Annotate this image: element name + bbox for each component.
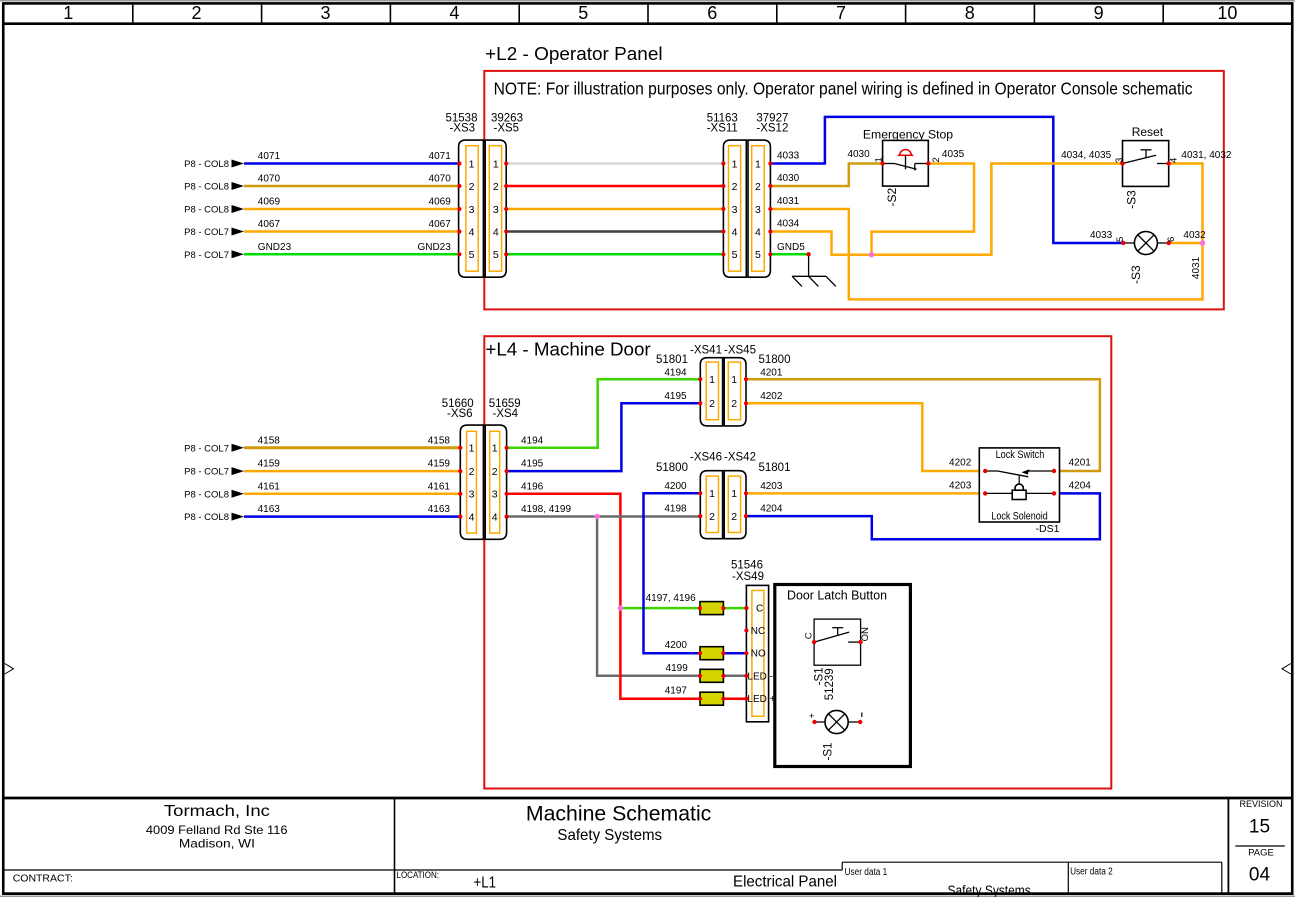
wire P8-COL8 4163 (blue) — [244, 504, 460, 517]
svg-text:+L4 - Machine Door: +L4 - Machine Door — [485, 338, 650, 359]
svg-text:4198, 4199: 4198, 4199 — [521, 504, 571, 515]
svg-text:3: 3 — [492, 489, 498, 501]
sheet bottom border redraw — [2, 892, 1293, 895]
svg-text:+L2 - Operator Panel: +L2 - Operator Panel — [485, 43, 662, 64]
door latch button box S1 — [775, 585, 911, 767]
junction node 4034/4035 (pink) — [869, 252, 874, 257]
structure box +L4 — [484, 336, 1111, 788]
svg-text:4070: 4070 — [258, 174, 281, 185]
svg-text:-XS41: -XS41 — [690, 344, 722, 356]
TITLE BLOCK — [2, 798, 1293, 893]
svg-text:4197: 4197 — [665, 686, 688, 697]
svg-text:Emergency Stop: Emergency Stop — [863, 128, 954, 142]
indicator lamp S3 — [1121, 232, 1171, 255]
svg-text:P8 - COL7: P8 - COL7 — [184, 227, 229, 238]
svg-text:GND23: GND23 — [417, 242, 451, 253]
svg-text:51800: 51800 — [759, 354, 791, 366]
ferrule on wire 4197 (LED+) — [698, 692, 726, 705]
svg-text:4: 4 — [469, 511, 475, 523]
connector XS3 (51538) — [446, 113, 484, 278]
svg-text:4198: 4198 — [664, 504, 687, 515]
svg-text:3: 3 — [469, 489, 475, 501]
svg-text:+L1: +L1 — [474, 875, 497, 892]
svg-text:LED -: LED - — [747, 671, 773, 682]
wire P8-COL7 4158 (goldenrod) — [244, 435, 460, 448]
svg-text:P8 - COL8: P8 - COL8 — [184, 512, 229, 523]
svg-text:4194: 4194 — [521, 435, 544, 446]
svg-text:4069: 4069 — [429, 197, 452, 208]
wire 4033 (blue) XS12.1 to lamp S3 pin5 — [770, 117, 1123, 243]
svg-text:5: 5 — [732, 249, 738, 261]
emergency stop switch S2 — [863, 128, 954, 187]
svg-text:1: 1 — [493, 158, 499, 170]
svg-text:10: 10 — [1217, 3, 1237, 23]
svg-text:PAGE: PAGE — [1248, 848, 1274, 859]
svg-text:4161: 4161 — [428, 481, 451, 492]
wire 4200 (blue) XS46.1 down to pin NO — [644, 493, 747, 653]
reset switch S3 — [1120, 125, 1171, 186]
svg-text:4030: 4030 — [777, 173, 800, 184]
wire 4199 (gray) junction down to LED- ferrule — [597, 517, 746, 676]
svg-text:9: 9 — [1094, 3, 1104, 23]
svg-text:3: 3 — [732, 204, 738, 216]
source arrow P8 - COL7 (row2) — [184, 467, 244, 478]
svg-text:1: 1 — [731, 488, 737, 500]
svg-text:5: 5 — [469, 249, 475, 261]
svg-text:4071: 4071 — [429, 151, 452, 162]
svg-text:4070: 4070 — [429, 174, 452, 185]
svg-text:2: 2 — [731, 511, 737, 523]
svg-text:-S1: -S1 — [823, 743, 835, 761]
svg-text:4158: 4158 — [428, 435, 451, 446]
source arrow P8 - COL8 (row1) — [184, 159, 244, 170]
lock switch / lock solenoid DS1 — [979, 448, 1059, 523]
svg-text:6: 6 — [1166, 237, 1177, 242]
svg-text:51546: 51546 — [731, 560, 763, 572]
svg-text:User data 1: User data 1 — [845, 867, 888, 878]
svg-text:-XS6: -XS6 — [447, 408, 473, 420]
svg-text:-S2: -S2 — [885, 188, 899, 207]
svg-text:4031: 4031 — [777, 196, 800, 207]
svg-text:4033: 4033 — [777, 151, 800, 162]
svg-text:-XS4: -XS4 — [493, 408, 519, 420]
svg-text:2: 2 — [731, 398, 737, 410]
svg-text:Safety Systems: Safety Systems — [557, 827, 662, 844]
svg-text:1: 1 — [63, 3, 73, 23]
svg-text:3: 3 — [755, 204, 761, 216]
svg-text:P8 - COL8: P8 - COL8 — [184, 182, 229, 193]
svg-text:3: 3 — [320, 3, 330, 23]
wire 4202 (orange) XS45.2 to lock switch — [746, 391, 985, 471]
fold mark left — [5, 664, 14, 675]
wire GND5 (green) XS12.5 to ground — [770, 242, 808, 255]
svg-text:4071: 4071 — [258, 151, 281, 162]
svg-text:CONTRACT:: CONTRACT: — [13, 873, 73, 885]
svg-text:4202: 4202 — [760, 391, 783, 402]
svg-text:4163: 4163 — [258, 504, 281, 515]
wire XS5.1 to XS11.1 (light gray) — [506, 162, 723, 165]
svg-text:4203: 4203 — [949, 480, 972, 491]
svg-text:-XS45: -XS45 — [724, 344, 756, 356]
wire XS5.4 to XS11.4 (dark gray) — [506, 230, 723, 233]
svg-text:4032: 4032 — [1183, 230, 1206, 241]
svg-text:2: 2 — [492, 466, 498, 478]
svg-text:4: 4 — [469, 226, 475, 238]
wire 4203 (orange) XS42.1 to lock switch — [746, 481, 985, 494]
svg-text:4199: 4199 — [666, 663, 689, 674]
svg-text:NOTE: For illustration purpose: NOTE: For illustration purposes only. Op… — [494, 79, 1193, 99]
svg-text:3: 3 — [493, 204, 499, 216]
svg-text:C: C — [804, 632, 815, 639]
junction node 4031/4032 (pink) — [1200, 240, 1205, 245]
ferrule on wire 4199 (LED-) — [698, 669, 726, 682]
svg-text:Madison, WI: Madison, WI — [179, 836, 255, 850]
svg-text:Lock Switch: Lock Switch — [996, 449, 1045, 461]
door latch lamp S1 — [812, 710, 862, 733]
svg-text:4195: 4195 — [521, 459, 544, 470]
svg-text:04: 04 — [1249, 865, 1271, 886]
svg-text:-XS3: -XS3 — [450, 123, 476, 135]
svg-text:2: 2 — [709, 398, 715, 410]
svg-text:4031, 4032: 4031, 4032 — [1181, 150, 1231, 161]
svg-text:C: C — [756, 604, 763, 615]
wire 4034 (orange) XS12.4 to junction to Reset pin3 — [770, 150, 1122, 255]
junction node 4198/4199 (pink) — [594, 514, 599, 519]
svg-text:2: 2 — [931, 157, 942, 162]
node GND5 terminal dot — [806, 252, 810, 256]
source arrow P8 - COL8 (row3) — [184, 205, 244, 216]
svg-text:User data 2: User data 2 — [1070, 866, 1113, 877]
wire P8-COL7 4067 (orange) — [244, 219, 459, 232]
svg-text:Door Latch Button: Door Latch Button — [787, 588, 887, 602]
svg-text:+: + — [809, 711, 815, 722]
pin label - (door lamp) — [861, 713, 863, 718]
fold mark right — [1282, 664, 1291, 675]
svg-text:4: 4 — [732, 226, 738, 238]
svg-text:LED +: LED + — [747, 694, 775, 705]
svg-text:4: 4 — [493, 226, 499, 238]
svg-text:REVISION: REVISION — [1239, 799, 1282, 809]
svg-text:4201: 4201 — [760, 368, 783, 379]
source arrow P8 - COL7 (row4) — [184, 227, 244, 238]
source arrow P8 - COL7 (row1) — [184, 443, 244, 454]
svg-text:4161: 4161 — [258, 481, 281, 492]
wire 4031 (orange) XS12.3 to Reset pin4 — [770, 164, 1202, 300]
svg-text:4067: 4067 — [429, 219, 452, 230]
svg-text:5: 5 — [493, 249, 499, 261]
svg-text:Reset: Reset — [1132, 125, 1164, 139]
RULER-NUMBERS — [63, 3, 1237, 23]
wire 4197, 4196 (green) junction to pin C — [620, 593, 746, 608]
connector XS45 (51800) — [724, 344, 790, 426]
svg-text:3: 3 — [469, 204, 475, 216]
svg-text:4201: 4201 — [1069, 458, 1092, 469]
svg-text:1: 1 — [709, 488, 715, 500]
wire P8-COL8 4161 (orange) — [244, 481, 460, 494]
svg-text:2: 2 — [732, 181, 738, 193]
svg-text:2: 2 — [709, 511, 715, 523]
svg-text:4200: 4200 — [664, 481, 687, 492]
svg-text:6: 6 — [707, 3, 717, 23]
svg-text:-XS5: -XS5 — [494, 123, 520, 135]
svg-text:2: 2 — [469, 466, 475, 478]
wire P8-COL8 4069 (orange) — [244, 197, 459, 210]
svg-text:4203: 4203 — [760, 481, 783, 492]
svg-text:4067: 4067 — [258, 219, 281, 230]
junction node 4196/4197 (pink) — [618, 605, 623, 610]
wire P8-COL8 4070 (goldenrod) — [244, 174, 459, 187]
svg-text:Machine Schematic: Machine Schematic — [526, 803, 711, 826]
svg-text:NO: NO — [858, 627, 869, 641]
svg-text:4009 Felland Rd Ste 116: 4009 Felland Rd Ste 116 — [146, 823, 288, 837]
connector XS12 (37927) — [748, 113, 788, 278]
svg-text:4200: 4200 — [665, 640, 688, 651]
svg-text:4069: 4069 — [258, 197, 281, 208]
svg-text:1: 1 — [469, 443, 475, 455]
svg-text:1: 1 — [755, 158, 761, 170]
wire 4198, 4199 (gray) XS4.4 to XS46.2 — [507, 504, 701, 516]
svg-text:1: 1 — [492, 443, 498, 455]
svg-text:7: 7 — [836, 3, 846, 23]
wire XS5.5 to XS11.5 (green) — [506, 253, 723, 256]
svg-text:GND5: GND5 — [777, 242, 805, 253]
svg-text:4204: 4204 — [1069, 480, 1092, 491]
svg-text:1: 1 — [709, 374, 715, 386]
svg-text:4: 4 — [1168, 158, 1179, 163]
wire P8-COL7 4159 (orange) — [244, 459, 460, 472]
connector XS49 (51546) — [731, 560, 776, 722]
svg-text:1: 1 — [469, 158, 475, 170]
svg-text:51801: 51801 — [759, 462, 791, 474]
svg-text:GND23: GND23 — [258, 242, 292, 253]
svg-text:P8 - COL8: P8 - COL8 — [184, 159, 229, 170]
svg-text:NC: NC — [751, 626, 765, 637]
svg-text:4158: 4158 — [258, 435, 281, 446]
connector XS11 (51163) — [707, 113, 747, 278]
svg-text:4035: 4035 — [942, 149, 965, 160]
svg-text:2: 2 — [469, 181, 475, 193]
svg-text:P8 - COL8: P8 - COL8 — [184, 489, 229, 500]
wire 4196 (red) XS4.3 down to junction — [507, 481, 621, 608]
svg-text:-XS42: -XS42 — [724, 452, 756, 464]
ferrule on wire 4197,4196 (C) — [698, 602, 726, 615]
svg-text:15: 15 — [1249, 817, 1270, 838]
source arrow P8 - COL8 (row2) — [184, 182, 244, 193]
svg-text:2: 2 — [755, 181, 761, 193]
wire GND23 (green) — [244, 242, 459, 255]
svg-text:4034: 4034 — [777, 219, 800, 230]
wire 4201 (goldenrod) lock switch to XS45.1 — [746, 368, 1100, 471]
svg-text:51239: 51239 — [824, 668, 836, 700]
svg-text:4031: 4031 — [1191, 256, 1202, 279]
svg-text:2: 2 — [493, 181, 499, 193]
door latch switch S1 contact — [812, 619, 863, 665]
svg-text:4033: 4033 — [1090, 230, 1113, 241]
connector XS46 (51800) — [656, 452, 723, 539]
svg-text:P8 - COL7: P8 - COL7 — [184, 250, 229, 261]
svg-text:NO: NO — [751, 649, 766, 660]
connector XS5 (39263) — [485, 113, 523, 278]
revision divider — [1235, 845, 1285, 847]
svg-text:5: 5 — [1115, 237, 1126, 242]
wire 4195 (blue) XS4.2 to XS41.2 — [507, 403, 701, 471]
svg-text:-DS1: -DS1 — [1036, 523, 1060, 535]
wire 4035 (orange) E-stop pin2 to junction — [872, 149, 975, 255]
svg-text:-XS12: -XS12 — [756, 123, 788, 135]
source arrow P8 - COL8 (row3) — [184, 489, 244, 500]
svg-text:4194: 4194 — [664, 368, 687, 379]
svg-text:3: 3 — [1114, 158, 1125, 163]
svg-text:2: 2 — [191, 3, 201, 23]
wire 4030 (goldenrod) XS12.2 to E-stop pin1 — [770, 149, 882, 186]
wire P8-COL8 4071 (blue) — [244, 151, 459, 164]
svg-text:P8 - COL7: P8 - COL7 — [184, 467, 229, 478]
svg-text:Tormach, Inc: Tormach, Inc — [164, 803, 270, 820]
svg-text:P8 - COL7: P8 - COL7 — [184, 443, 229, 454]
svg-text:4197, 4196: 4197, 4196 — [646, 593, 696, 604]
connector XS42 (51801) — [724, 452, 790, 539]
svg-text:4034, 4035: 4034, 4035 — [1061, 150, 1111, 161]
svg-text:Electrical Panel: Electrical Panel — [733, 874, 837, 891]
svg-text:-S3: -S3 — [1129, 265, 1143, 284]
svg-text:P8 - COL8: P8 - COL8 — [184, 205, 229, 216]
svg-text:51800: 51800 — [656, 462, 688, 474]
svg-text:-S3: -S3 — [1125, 190, 1139, 209]
connector XS4 (51659) — [485, 398, 520, 539]
svg-text:4: 4 — [449, 3, 459, 23]
connector XS41 (51801) — [656, 344, 723, 426]
svg-text:4159: 4159 — [428, 459, 451, 470]
ferrule on wire 4200 (NO) — [698, 647, 726, 660]
svg-text:4204: 4204 — [760, 504, 783, 515]
svg-text:5: 5 — [578, 3, 588, 23]
wire 4032 (orange) lamp pin6 to junction — [1169, 230, 1206, 243]
svg-text:-XS49: -XS49 — [732, 571, 764, 583]
svg-text:Lock Solenoid: Lock Solenoid — [991, 511, 1047, 523]
svg-text:4202: 4202 — [949, 458, 972, 469]
svg-text:-XS11: -XS11 — [707, 123, 738, 135]
svg-text:LOCATION:: LOCATION: — [397, 870, 440, 880]
svg-text:4163: 4163 — [428, 504, 451, 515]
svg-text:1: 1 — [874, 157, 885, 162]
svg-text:1: 1 — [731, 374, 737, 386]
svg-text:4195: 4195 — [664, 391, 687, 402]
wire XS5.3 to XS11.3 (orange) — [506, 208, 723, 211]
svg-text:5: 5 — [755, 249, 761, 261]
svg-text:1: 1 — [732, 158, 738, 170]
svg-text:4030: 4030 — [847, 149, 870, 160]
svg-text:-XS46: -XS46 — [690, 452, 722, 464]
connector XS6 (51660) — [442, 398, 484, 539]
source arrow P8 - COL8 (row4) — [184, 512, 244, 523]
svg-text:4159: 4159 — [258, 459, 281, 470]
wire 4197 (red) junction down to LED+ ferrule — [620, 608, 746, 699]
svg-text:4196: 4196 — [521, 481, 544, 492]
wire 4204 (blue) XS42.2 to lock solenoid — [746, 493, 1100, 539]
svg-text:8: 8 — [965, 3, 975, 23]
ground symbol — [792, 254, 836, 286]
wire 4194 (green) XS4.1 to XS41.1 — [507, 379, 701, 448]
structure box +L2 — [484, 71, 1224, 310]
svg-text:4: 4 — [755, 226, 761, 238]
svg-text:51801: 51801 — [656, 354, 688, 366]
svg-text:4: 4 — [492, 511, 498, 523]
wire XS5.2 to XS11.2 (red) — [506, 185, 723, 188]
source arrow P8 - COL7 (row5) — [184, 250, 244, 261]
